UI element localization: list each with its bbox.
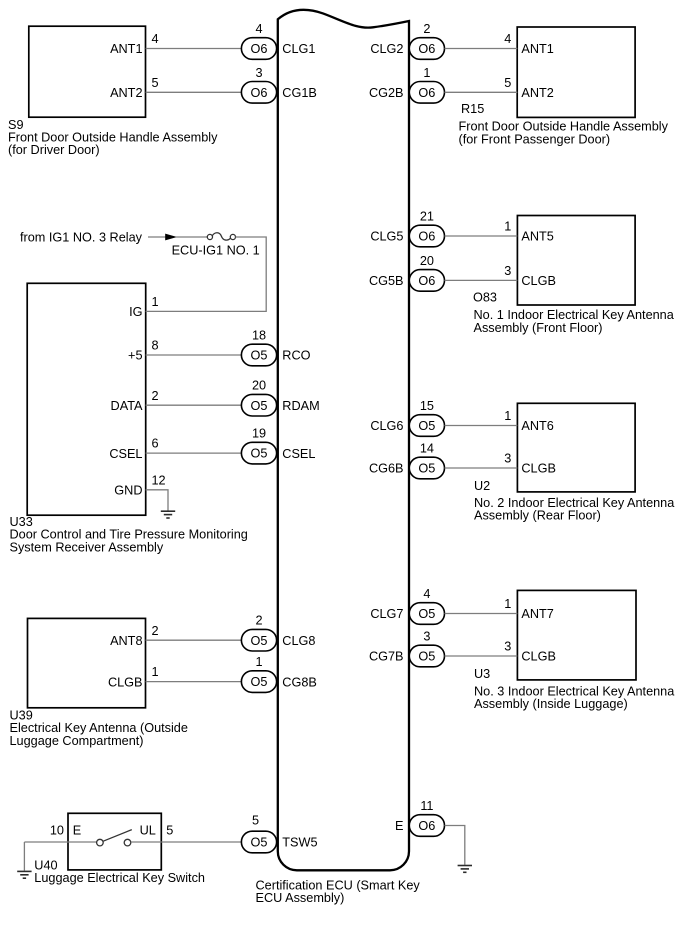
svg-text:1: 1 [423,66,430,80]
wire connector CLG5 to O83 ANT5 pin1 [445,235,518,237]
wire fusible link to corner then down to U33 IG pin wire [146,237,267,311]
connector O6 CLG5 [409,225,444,247]
svg-text:5: 5 [166,824,173,838]
svg-text:14: 14 [420,442,434,456]
component box O83 No. 1 Indoor Electrical Key Antenna Assembly (Front Floor) [517,216,635,306]
svg-text:CG1B: CG1B [282,86,317,100]
svg-text:1: 1 [504,409,511,423]
svg-text:O6: O6 [418,230,435,244]
svg-text:ANT5: ANT5 [521,230,553,244]
svg-text:1: 1 [504,597,511,611]
connector O5 CLG7 [409,603,444,625]
svg-text:Assembly (Front Floor): Assembly (Front Floor) [474,321,603,335]
switch contact circles and lever U40 [97,839,131,846]
svg-text:CLG8: CLG8 [282,634,315,648]
svg-text:ANT1: ANT1 [521,42,553,56]
svg-text:Assembly (Inside Luggage): Assembly (Inside Luggage) [474,697,628,711]
svg-text:CLGB: CLGB [521,650,556,664]
svg-text:O5: O5 [251,634,268,648]
svg-text:Assembly (Rear Floor): Assembly (Rear Floor) [474,509,601,523]
connector O5 CG8B [241,671,276,693]
fusible link ECU-IG1 NO. 1 [207,233,235,240]
component box U2 No. 2 Indoor Electrical Key Antenna Assembly (Rear Floor) [517,403,635,492]
svg-text:(for Front Passenger Door): (for Front Passenger Door) [459,132,611,146]
svg-text:4: 4 [255,22,262,36]
connector O5 CG7B [409,645,444,667]
component box S9 Front Door Outside Handle Assembly (for Driver Door) [29,26,146,117]
ground symbol at ECU E pin [458,866,472,873]
wire arrow to fusible link [176,236,207,238]
svg-text:R15: R15 [461,102,484,116]
svg-text:DATA: DATA [111,399,143,413]
svg-text:4: 4 [423,587,430,601]
wire U33 +5 pin8 to connector O5 (RCO) [146,354,242,356]
svg-text:CSEL: CSEL [109,447,142,461]
svg-text:ANT1: ANT1 [110,42,142,56]
svg-text:6: 6 [152,437,159,451]
svg-text:1: 1 [152,295,159,309]
connector O6 CG1B [241,82,276,104]
svg-text:CLG6: CLG6 [370,419,403,433]
component box U33 Door Control and Tire Pressure Monitoring System Receiver Assembly [27,283,146,515]
wire U40 UL pin5 to connector O5 (TSW5) [161,841,241,843]
svg-text:O5: O5 [251,399,268,413]
svg-text:ANT7: ANT7 [521,607,553,621]
svg-text:ANT2: ANT2 [521,86,553,100]
svg-text:ANT2: ANT2 [110,86,142,100]
svg-text:GND: GND [114,484,142,498]
svg-text:O6: O6 [418,819,435,833]
wire S9 ANT1 pin4 to connector O6 (CLG1) [146,48,242,50]
svg-text:1: 1 [255,655,262,669]
wire U39 ANT8 pin2 to connector O5 (CLG8) [146,639,242,641]
svg-text:O83: O83 [473,291,497,305]
svg-text:CLGB: CLGB [521,274,556,288]
svg-text:Luggage Compartment): Luggage Compartment) [10,734,144,748]
wire S9 ANT2 pin5 to connector O6 (CG1B) [146,91,242,93]
svg-text:U3: U3 [474,667,490,681]
svg-text:1: 1 [504,220,511,234]
connector O6 CLG1 [241,38,276,60]
svg-text:ANT6: ANT6 [521,419,553,433]
svg-text:from IG1 NO. 3 Relay: from IG1 NO. 3 Relay [20,230,143,244]
component box U39 Electrical Key Antenna (Outside Luggage Compartment) [28,618,146,707]
connector O6 E [409,815,444,837]
svg-text:2: 2 [255,614,262,628]
wire connector CLG7 to U3 ANT7 pin1 [445,613,518,615]
svg-text:CLG5: CLG5 [370,230,403,244]
wire inside U40 from switch contact to right edge [131,841,161,843]
svg-text:1: 1 [152,665,159,679]
svg-text:3: 3 [255,66,262,80]
svg-text:18: 18 [252,329,266,343]
ECU block outline U-shape (Certification ECU Smart Key ECU Assembly) [278,10,409,871]
svg-text:11: 11 [420,799,433,813]
wire ground to U40 switch E pin10 [24,841,68,843]
connector O6 CG2B [409,82,444,104]
svg-text:CG2B: CG2B [369,86,404,100]
svg-text:RCO: RCO [282,349,310,363]
svg-text:CG8B: CG8B [282,675,317,689]
svg-text:12: 12 [152,473,166,487]
svg-text:CLG2: CLG2 [370,42,403,56]
svg-text:O5: O5 [251,675,268,689]
svg-text:3: 3 [423,630,430,644]
svg-text:5: 5 [252,813,259,827]
svg-text:CLG7: CLG7 [370,607,403,621]
svg-text:CG5B: CG5B [369,274,404,288]
svg-text:4: 4 [504,32,511,46]
wire U33 CSEL pin6 to connector O5 (CSEL) [146,452,242,454]
ground symbol at U33 GND [161,511,175,518]
svg-text:O5: O5 [251,447,268,461]
svg-text:O6: O6 [251,42,268,56]
svg-text:10: 10 [50,824,64,838]
svg-text:Luggage Electrical Key Switch: Luggage Electrical Key Switch [34,871,205,885]
svg-text:CG6B: CG6B [369,462,404,476]
svg-text:15: 15 [420,399,434,413]
connector O5 RDAM [241,394,276,416]
svg-text:(for Driver Door): (for Driver Door) [8,143,100,157]
wire connector CG5B to O83 CLGB pin3 [445,279,518,281]
svg-text:O6: O6 [251,86,268,100]
svg-text:O6: O6 [418,274,435,288]
svg-text:O6: O6 [418,42,435,56]
wire from IG1 NO. 3 Relay to fusible link [148,236,166,238]
svg-text:CG7B: CG7B [369,650,404,664]
connector O5 TSW5 [241,831,276,853]
wire connector CG6B to U2 CLGB pin3 [445,467,518,469]
svg-text:TSW5: TSW5 [282,836,317,850]
svg-text:O5: O5 [418,419,435,433]
wire connector CG7B to U3 CLGB pin3 [445,655,518,657]
wire connector E to ground [445,826,465,865]
svg-text:21: 21 [420,210,434,224]
svg-text:3: 3 [504,264,511,278]
svg-text:O5: O5 [418,462,435,476]
connector O6 CLG2 [409,38,444,60]
svg-text:System Receiver Assembly: System Receiver Assembly [10,540,164,554]
svg-text:2: 2 [423,22,430,36]
connector O5 CG6B [409,457,444,479]
wire U33 GND pin12 to ground [146,490,168,511]
component box U40 Luggage Electrical Key Switch [68,813,161,870]
svg-text:UL: UL [140,824,156,838]
svg-text:ANT8: ANT8 [110,634,142,648]
component box R15 Front Door Outside Handle Assembly (for Front Passenger Door) [517,27,635,117]
ground symbol at U40 switch [23,842,25,871]
svg-text:+5: +5 [128,349,142,363]
svg-text:4: 4 [152,32,159,46]
svg-text:2: 2 [152,389,159,403]
svg-text:ECU-IG1 NO. 1: ECU-IG1 NO. 1 [172,244,260,258]
svg-text:CLG1: CLG1 [282,42,315,56]
svg-text:O5: O5 [418,650,435,664]
svg-text:8: 8 [152,339,159,353]
connector O6 CG5B [409,270,444,292]
svg-text:E: E [395,819,403,833]
svg-text:IG: IG [129,305,142,319]
svg-text:U2: U2 [474,479,490,493]
connector O5 CLG8 [241,629,276,651]
component box U3 No. 3 Indoor Electrical Key Antenna Assembly (Inside Luggage) [517,590,636,680]
wire U39 CLGB pin1 to connector O5 (CG8B) [146,681,242,683]
wire connector CLG6 to U2 ANT6 pin1 [445,425,518,427]
svg-text:3: 3 [504,452,511,466]
svg-text:O5: O5 [418,607,435,621]
wire U33 DATA pin2 to connector O5 (RDAM) [146,404,242,406]
svg-text:E: E [73,824,81,838]
svg-text:ECU Assembly): ECU Assembly) [256,891,345,905]
svg-text:O5: O5 [251,349,268,363]
svg-text:CLGB: CLGB [108,675,143,689]
wire inside U40 from left edge to switch contact [68,841,97,843]
svg-text:3: 3 [504,640,511,654]
svg-text:CLGB: CLGB [521,462,556,476]
svg-text:RDAM: RDAM [282,399,319,413]
connector O5 CLG6 [409,415,444,437]
connector O5 CSEL [241,442,276,464]
svg-text:5: 5 [504,76,511,90]
arrow head on IG1 feed wire [165,234,177,241]
svg-text:CSEL: CSEL [282,447,315,461]
wire connector CG2B to R15 ANT2 pin5 [445,91,518,93]
svg-text:20: 20 [252,379,266,393]
svg-text:O6: O6 [418,86,435,100]
svg-text:19: 19 [252,427,266,441]
connector O5 RCO [241,344,276,366]
svg-text:O5: O5 [251,836,268,850]
svg-text:5: 5 [152,76,159,90]
svg-text:2: 2 [152,624,159,638]
svg-text:20: 20 [420,254,434,268]
wire connector CLG2 to R15 ANT1 pin4 [445,48,518,50]
